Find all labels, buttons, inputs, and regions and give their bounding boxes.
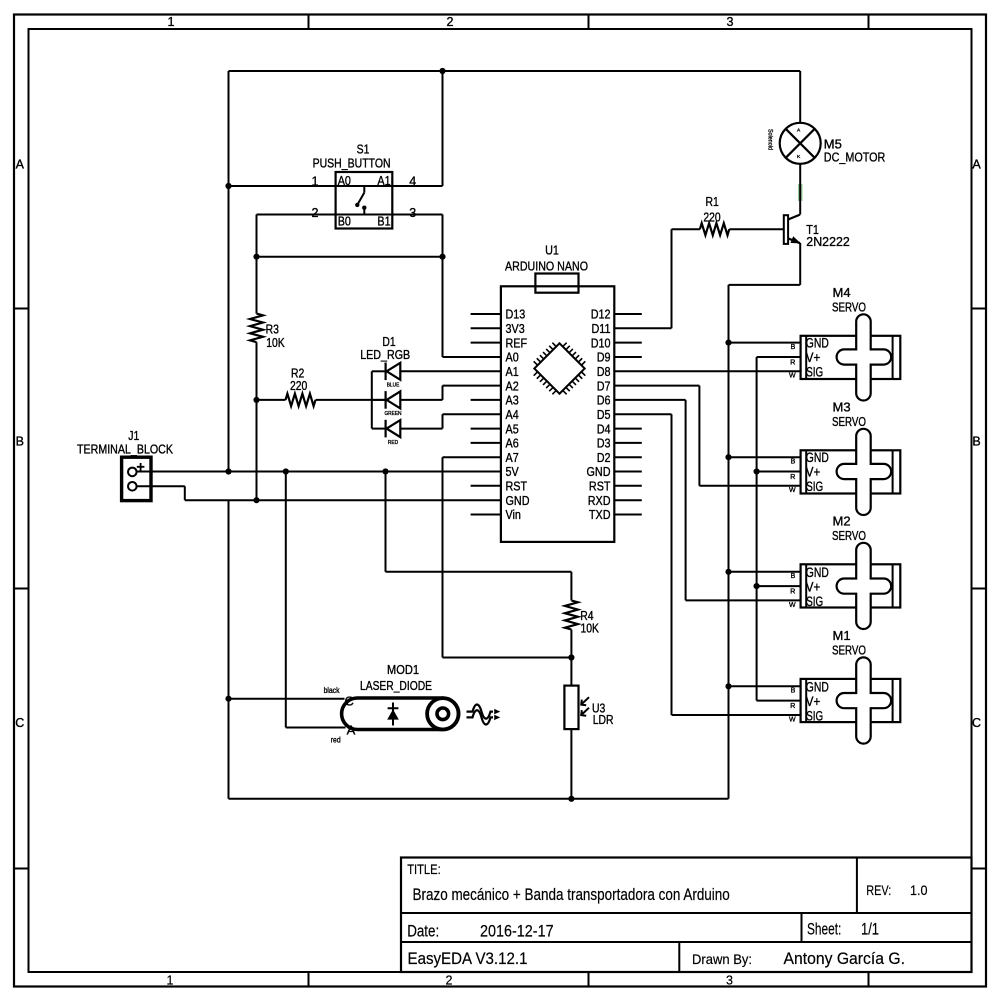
svg-text:Solenoid: Solenoid [766,129,773,150]
svg-text:B0: B0 [338,213,351,228]
svg-text:MOD1: MOD1 [387,663,419,677]
svg-text:A: A [16,158,25,172]
svg-text:red: red [331,735,341,744]
svg-text:B: B [16,434,24,448]
svg-text:GREEN: GREEN [384,411,401,417]
svg-text:Sheet:: Sheet: [807,919,841,938]
svg-text:EasyEDA V3.12.1: EasyEDA V3.12.1 [408,949,528,968]
svg-text:D5: D5 [597,407,611,422]
svg-text:S1: S1 [357,143,370,157]
svg-text:M1: M1 [833,628,851,643]
svg-text:BLUE: BLUE [387,383,400,389]
svg-text:TXD: TXD [589,507,611,522]
svg-text:W: W [789,602,796,609]
svg-text:TERMINAL_BLOCK: TERMINAL_BLOCK [77,442,174,456]
svg-text:W: W [789,373,796,380]
svg-text:D7: D7 [597,378,611,393]
svg-text:10K: 10K [581,622,600,636]
svg-text:M2: M2 [833,514,851,529]
svg-text:RST: RST [589,479,611,494]
svg-text:Brazo mecánico + Banda transpo: Brazo mecánico + Banda transportadora co… [413,885,730,904]
svg-text:A1: A1 [377,173,390,188]
svg-text:2: 2 [446,973,453,987]
svg-text:1: 1 [168,15,175,29]
svg-text:Drawn By:: Drawn By: [692,951,752,967]
svg-text:Vin: Vin [506,507,521,522]
svg-text:D13: D13 [506,307,526,322]
svg-text:2016-12-17: 2016-12-17 [480,921,554,940]
svg-text:SIG: SIG [806,479,823,494]
svg-text:10K: 10K [266,336,285,350]
svg-text:A4: A4 [506,407,519,422]
svg-text:1/1: 1/1 [861,919,879,938]
svg-text:GND: GND [806,336,829,351]
svg-text:2N2222: 2N2222 [806,234,850,249]
svg-text:SERVO: SERVO [832,643,866,658]
svg-text:D3: D3 [597,436,611,451]
svg-text:A5: A5 [506,421,519,436]
svg-text:SERVO: SERVO [832,414,866,429]
svg-text:Date:: Date: [407,921,439,940]
svg-text:V+: V+ [806,694,821,709]
svg-text:220: 220 [290,379,307,393]
svg-text:D9: D9 [597,350,611,365]
svg-text:LED_RGB: LED_RGB [360,348,410,362]
svg-text:GND: GND [806,450,829,465]
svg-text:W: W [789,487,796,494]
svg-text:C: C [345,693,354,708]
svg-text:R: R [790,359,795,366]
svg-text:3: 3 [409,206,416,220]
svg-text:2: 2 [447,15,454,29]
svg-text:3: 3 [727,15,734,29]
svg-text:SIG: SIG [806,594,823,609]
svg-text:REV:: REV: [866,882,891,898]
svg-text:D10: D10 [591,335,611,350]
svg-text:D4: D4 [597,421,611,436]
svg-text:GND: GND [506,493,530,508]
svg-text:V+: V+ [806,350,821,365]
svg-text:A0: A0 [338,173,351,188]
svg-text:GND: GND [587,464,611,479]
svg-text:2: 2 [312,206,319,220]
svg-text:R: R [790,703,795,710]
svg-text:1: 1 [312,174,319,188]
svg-text:W: W [789,716,796,723]
svg-text:4: 4 [409,174,416,188]
svg-text:RED: RED [388,440,398,446]
svg-text:RXD: RXD [588,493,611,508]
svg-text:LDR: LDR [593,713,614,727]
svg-text:D1: D1 [382,335,395,349]
svg-text:B: B [972,434,980,448]
svg-text:Antony García G.: Antony García G. [784,949,906,968]
svg-text:220: 220 [703,211,720,225]
svg-text:PUSH_BUTTON: PUSH_BUTTON [313,156,391,170]
svg-text:J1: J1 [128,429,139,443]
svg-text:B: B [791,688,796,695]
svg-text:D6: D6 [597,393,611,408]
svg-text:B: B [791,344,796,351]
svg-text:A7: A7 [506,450,519,465]
svg-text:RST: RST [506,479,528,494]
svg-text:A6: A6 [506,436,519,451]
svg-text:D12: D12 [591,307,611,322]
svg-text:SERVO: SERVO [832,528,866,543]
svg-text:black: black [324,686,341,695]
svg-text:M3: M3 [833,400,851,415]
svg-text:B1: B1 [377,213,390,228]
svg-text:D11: D11 [592,321,611,336]
svg-text:B: B [791,459,796,466]
svg-text:V+: V+ [806,579,821,594]
svg-text:A0: A0 [506,350,519,365]
svg-text:M4: M4 [833,285,851,300]
svg-text:ARDUINO NANO: ARDUINO NANO [505,258,588,273]
svg-text:R3: R3 [266,322,279,336]
svg-text:SIG: SIG [806,708,823,723]
svg-text:R1: R1 [706,195,719,209]
svg-text:3: 3 [726,973,733,987]
svg-text:A3: A3 [506,393,519,408]
svg-text:R: R [790,588,795,595]
svg-text:REF: REF [506,335,528,350]
svg-text:B: B [791,573,796,580]
svg-text:5V: 5V [506,464,519,479]
svg-text:C: C [972,716,981,730]
svg-text:D8: D8 [597,364,611,379]
svg-text:V+: V+ [806,465,821,480]
svg-text:DC_MOTOR: DC_MOTOR [824,149,886,164]
svg-text:LASER_DIODE: LASER_DIODE [360,679,432,693]
svg-text:C: C [15,716,24,730]
svg-text:SIG: SIG [806,365,823,380]
svg-text:R: R [790,474,795,481]
svg-text:TITLE:: TITLE: [407,862,441,877]
svg-text:D2: D2 [597,450,611,465]
svg-text:1.0: 1.0 [910,882,928,898]
svg-text:SERVO: SERVO [832,300,866,315]
svg-text:A: A [972,158,981,172]
svg-text:3V3: 3V3 [506,321,525,336]
svg-text:A2: A2 [506,378,519,393]
svg-text:A1: A1 [506,364,519,379]
svg-text:1: 1 [167,973,174,987]
svg-text:GND: GND [806,565,829,580]
svg-text:GND: GND [806,679,829,694]
svg-text:U1: U1 [545,242,559,257]
svg-text:A: A [347,722,356,737]
